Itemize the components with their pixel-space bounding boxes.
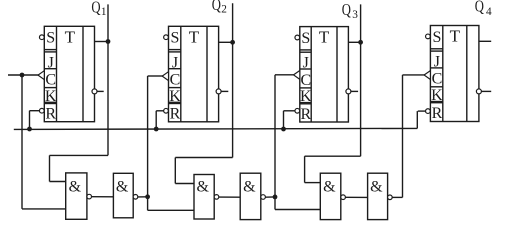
wire FF1 R input: [30, 110, 40, 112]
FF3 S input bubble: [295, 35, 300, 40]
wire FF3 R input: [284, 110, 296, 112]
FF3 Q output wire: [348, 41, 360, 43]
G2 output bubble: [133, 195, 138, 200]
svg-text:R: R: [170, 106, 181, 123]
svg-text:&: &: [116, 178, 129, 195]
JK flip-flop FF1 body: [44, 26, 94, 121]
wire G3 output to G4 input: [219, 196, 240, 198]
svg-text:Q: Q: [342, 0, 351, 19]
svg-text:4: 4: [486, 6, 492, 18]
svg-text:T: T: [450, 27, 461, 46]
svg-text:J: J: [48, 54, 54, 71]
label Q3: [342, 0, 359, 21]
G5 output bubble: [341, 195, 346, 200]
G4 output bubble: [261, 195, 266, 200]
svg-text:&: &: [323, 178, 336, 195]
wire Q1 feedback into gate G1 upper input: [50, 181, 66, 183]
node FF2 clock junction: [145, 194, 150, 199]
node Q1 output junction: [106, 39, 111, 44]
svg-text:1: 1: [101, 6, 107, 18]
wire junction down into G3 lower input: [147, 197, 149, 211]
wire reset bus: [14, 128, 418, 129]
FF2 S input bubble: [164, 35, 169, 40]
NAND gate G5: [320, 173, 341, 219]
JK flip-flop FF3 body: [300, 27, 349, 122]
svg-text:R: R: [300, 106, 311, 123]
wire Q2 feedback descent: [174, 158, 176, 184]
FF2 Q output wire: [219, 41, 233, 43]
node CP junction: [20, 73, 25, 78]
FF1 S input bubble: [39, 35, 44, 40]
svg-text:&: &: [243, 178, 256, 195]
FF1 Q-bar output bubble: [92, 89, 97, 94]
svg-text:S: S: [46, 30, 55, 47]
node FF3 R bus junction: [281, 127, 286, 132]
FF2 Q-bar stub wire: [221, 90, 228, 92]
G3 output bubble: [214, 195, 219, 200]
FF2 R input bubble: [164, 108, 169, 113]
svg-text:&: &: [370, 178, 383, 195]
wire Q3 feedback horizontal run: [305, 155, 361, 157]
wire clock descent to gate G1: [21, 75, 23, 209]
node FF2 R bus junction: [154, 127, 159, 132]
FF1 Q-bar stub wire: [97, 90, 104, 92]
svg-text:&: &: [196, 178, 209, 195]
svg-text:T: T: [319, 28, 330, 47]
svg-text:&: &: [69, 178, 82, 195]
svg-text:Q: Q: [475, 0, 484, 16]
JK flip-flop FF4 body: [430, 26, 479, 122]
wire FF2 R input: [156, 110, 164, 112]
FF4 R input bubble: [426, 109, 431, 114]
wire junction down into G5 lower input: [274, 197, 276, 210]
wire Q1 vertical line: [107, 4, 109, 155]
svg-text:T: T: [65, 27, 76, 46]
NAND gate G3: [194, 175, 214, 220]
node Q2 output junction: [230, 40, 235, 45]
svg-text:K: K: [45, 88, 57, 105]
wire G4 output to clock node of FF3: [265, 196, 275, 198]
G6 output bubble: [388, 195, 393, 200]
svg-text:S: S: [171, 30, 180, 47]
node FF1 R bus junction: [27, 127, 32, 132]
svg-text:K: K: [169, 88, 181, 105]
NAND gate G4: [240, 173, 261, 219]
wire G1 output to G2 input: [92, 196, 114, 198]
svg-text:C: C: [45, 72, 56, 89]
wire bus riser to FF4 R: [416, 111, 418, 128]
svg-text:S: S: [432, 29, 441, 46]
svg-text:2: 2: [221, 4, 227, 16]
FF1 R input bubble: [39, 108, 44, 113]
NAND gate G1: [66, 173, 87, 219]
FF2 clock edge triangle: [162, 72, 168, 81]
wire G2 output to clock node of FF2: [138, 196, 148, 198]
wire CP clock input stub: [8, 74, 39, 76]
FF3 R input bubble: [295, 108, 300, 113]
wire FF4 R input: [418, 110, 426, 112]
label Q2: [212, 0, 228, 16]
wire Q2 feedback into gate G3 upper input: [175, 183, 194, 185]
svg-text:3: 3: [352, 9, 358, 21]
FF3 clock edge triangle: [294, 71, 300, 80]
svg-text:T: T: [189, 27, 200, 46]
svg-text:R: R: [45, 106, 56, 123]
G1 output bubble: [87, 194, 92, 199]
wire Q3 feedback into gate G5 upper input: [305, 182, 321, 184]
svg-text:K: K: [300, 88, 312, 105]
FF4 S input bubble: [426, 34, 431, 39]
svg-text:J: J: [434, 54, 440, 71]
NAND gate G2: [113, 173, 133, 218]
FF4 Q-bar output bubble: [476, 89, 481, 94]
FF2 Q-bar output bubble: [216, 89, 221, 94]
svg-text:S: S: [301, 30, 310, 47]
FF3 Q-bar output bubble: [346, 89, 351, 94]
svg-text:K: K: [431, 87, 443, 104]
wire FF2 clock riser: [147, 76, 149, 197]
svg-text:C: C: [300, 72, 311, 89]
wire Q1 feedback horizontal run: [50, 154, 109, 156]
svg-text:C: C: [432, 71, 443, 88]
FF1 clock edge triangle: [38, 71, 44, 80]
wire Q3 vertical line: [360, 4, 362, 156]
node Q3 output junction: [358, 40, 363, 45]
wire Q2 feedback horizontal run: [175, 157, 232, 159]
wire G6 output to FF4 clock: [392, 196, 402, 198]
FF4 clock edge triangle: [424, 71, 430, 80]
wire Q2 vertical line: [232, 3, 234, 157]
label Q4: [475, 0, 492, 18]
svg-text:C: C: [170, 72, 181, 89]
NAND gate G6: [368, 173, 388, 219]
wire G5 output to G6 input: [345, 196, 367, 198]
FF4 Q-bar stub wire: [481, 90, 491, 92]
svg-text:J: J: [303, 55, 309, 72]
wire Q3 feedback descent: [304, 156, 306, 182]
FF3 Q-bar stub wire: [351, 90, 358, 92]
wire FF3 clock riser: [274, 75, 276, 197]
FF1 Q output wire: [95, 41, 109, 43]
node FF3 clock junction: [273, 195, 278, 200]
JK flip-flop FF2 body: [169, 26, 219, 122]
FF4 Q output wire: [479, 40, 491, 42]
svg-text:Q: Q: [91, 0, 100, 17]
svg-text:Q: Q: [212, 0, 221, 14]
wire Q1 feedback descent: [49, 155, 51, 181]
label Q1: [91, 0, 106, 18]
svg-text:J: J: [172, 54, 178, 71]
svg-text:R: R: [432, 105, 443, 122]
